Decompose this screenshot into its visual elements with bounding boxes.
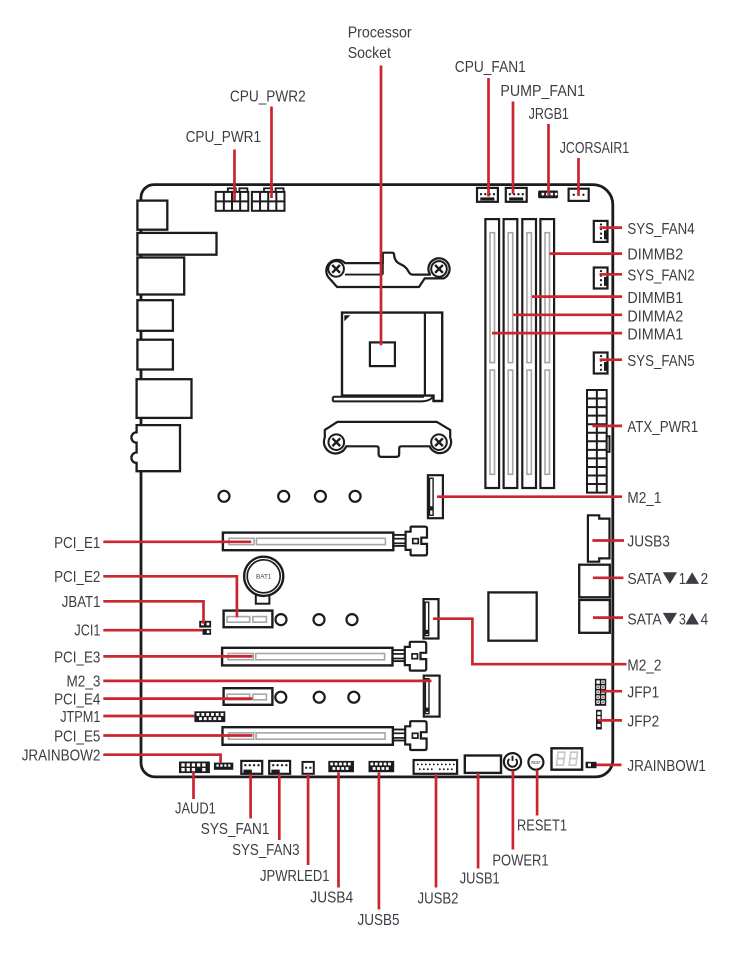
wire DIMMA1 leader: [492, 332, 622, 335]
label PUMP_FAN1: [500, 83, 585, 100]
svg-text:SYS_FAN1: SYS_FAN1: [201, 821, 270, 838]
svg-text:JUSB1: JUSB1: [460, 871, 500, 888]
wire DIMMB2 leader: [550, 252, 623, 255]
wire JRGB1 leader: [547, 124, 550, 195]
svg-text:JTPM1: JTPM1: [60, 709, 100, 726]
connector M2_1: [428, 475, 443, 518]
socket center square: [370, 342, 395, 366]
wire JFP1 leader: [601, 690, 622, 693]
button RESET1: [528, 755, 543, 770]
label JAUD1: [175, 800, 216, 817]
svg-text:BAT1: BAT1: [256, 574, 272, 581]
label JUSB2: [418, 890, 459, 907]
DIMMA2 slot: [504, 219, 518, 488]
header JFP1: [595, 679, 606, 706]
io port 6: [137, 379, 192, 418]
svg-text:ATX_PWR1: ATX_PWR1: [627, 419, 698, 436]
connector SYS_FAN2: [594, 268, 608, 289]
cpu top retention bracket: [326, 253, 449, 287]
svg-text:PCI_E5: PCI_E5: [54, 728, 100, 745]
connector SYS_FAN5: [594, 353, 608, 374]
wire CPU_PWR1 leader: [233, 150, 236, 201]
header JAUD1: [179, 762, 210, 774]
wire SATA12 leader: [593, 576, 624, 579]
io port 3: [137, 258, 184, 295]
svg-text:SYS_FAN4: SYS_FAN4: [627, 221, 694, 238]
svg-text:JRAINBOW2: JRAINBOW2: [22, 748, 101, 765]
svg-text:JCORSAIR1: JCORSAIR1: [560, 140, 630, 157]
header JPWRLED1: [303, 762, 314, 774]
svg-text:RESET1: RESET1: [517, 817, 567, 834]
svg-text:JPWRLED1: JPWRLED1: [260, 868, 330, 885]
svg-text:PCI_E3: PCI_E3: [54, 649, 100, 666]
connector M2_3: [424, 676, 440, 717]
wire M2_2 leader: [433, 619, 627, 665]
wire SYS_FAN5 leader: [600, 358, 622, 361]
label JUSB5: [358, 912, 400, 929]
wire SYS_FAN4 leader: [600, 226, 622, 229]
svg-text:CPU_PWR2: CPU_PWR2: [230, 88, 306, 105]
DIMMB1 slot: [522, 219, 536, 488]
connector JCORSAIR1: [569, 189, 589, 201]
label JRAINBOW1: [627, 758, 706, 775]
wire PCI_E4 leader: [103, 697, 252, 700]
debug LED: [552, 748, 583, 769]
label SYS_FAN1: [201, 821, 270, 838]
wire PCI_E2 leader: [103, 576, 237, 617]
label JCI1: [74, 623, 100, 640]
wire M2_1 leader: [437, 495, 622, 498]
svg-text:Socket: Socket: [348, 45, 392, 62]
io audio port: [131, 425, 180, 471]
mounting holes: [219, 491, 361, 703]
wire JFP2 leader: [598, 719, 622, 722]
label JFP1: [627, 684, 659, 701]
svg-text:SATA: SATA: [627, 612, 662, 629]
header JUSB2: [414, 760, 458, 774]
wire POWER1 leader: [512, 771, 515, 850]
label PCI_E2: [54, 569, 100, 586]
header JUSB5: [369, 761, 395, 772]
header JFP2: [596, 710, 602, 730]
label DIMMA1: [627, 326, 683, 343]
wire JUSB2 leader: [435, 774, 438, 888]
svg-text:M2_1: M2_1: [627, 490, 661, 507]
slot PCI_E2: [224, 611, 273, 628]
header JRAINBOW2: [214, 763, 233, 770]
chipset: [488, 592, 536, 640]
wire PUMP_FAN1 leader: [512, 102, 515, 195]
wire M2_3 leader: [103, 680, 431, 683]
svg-text:SYS_FAN2: SYS_FAN2: [627, 268, 694, 285]
label PCI_E4: [54, 691, 100, 708]
wire ATX_PWR1 leader: [592, 425, 622, 428]
wire SYS_FAN2 leader: [600, 273, 622, 276]
svg-text:JRAINBOW1: JRAINBOW1: [627, 758, 706, 775]
label SYS_FAN5: [627, 353, 694, 370]
connector CPU_PWR2: [252, 188, 285, 211]
wire JUSB3 leader: [592, 539, 624, 542]
button POWER1: [504, 753, 521, 770]
wire JUSB4 leader: [337, 773, 340, 888]
label M2_3: [67, 673, 101, 690]
wire JRAINBOW2 leader: [103, 755, 220, 763]
label JBAT1: [62, 594, 101, 611]
battery BAT1: [244, 557, 283, 604]
svg-text:DIMMB1: DIMMB1: [627, 290, 683, 307]
header JTPM1: [194, 711, 225, 722]
DIMMA1 slot: [485, 219, 499, 488]
svg-text:JUSB3: JUSB3: [627, 534, 669, 551]
label CPU_FAN1: [455, 59, 526, 76]
wire DIMMA2 leader: [513, 313, 622, 316]
io port 4: [137, 300, 173, 331]
wire PCI_E5 leader: [103, 734, 252, 737]
label DIMMB1: [627, 290, 683, 307]
label M2_2: [627, 657, 661, 674]
label RESET1: [517, 817, 567, 834]
svg-text:1: 1: [679, 571, 686, 588]
label JCORSAIR1: [560, 140, 630, 157]
svg-text:M2_2: M2_2: [627, 657, 661, 674]
wire JBAT1 leader: [103, 601, 203, 624]
connector SATA34: [579, 600, 610, 633]
svg-text:CPU_PWR1: CPU_PWR1: [186, 129, 261, 146]
label DIMMB2: [627, 247, 683, 264]
wire CPU_PWR2 leader: [270, 107, 273, 199]
wire Processor Socket leader: [380, 66, 383, 346]
connector JUSB1: [465, 756, 501, 773]
label SATA34: [627, 612, 708, 629]
label SYS_FAN4: [627, 221, 694, 238]
screw top-left: [328, 261, 344, 277]
label JUSB1: [460, 871, 500, 888]
svg-text:CPU_FAN1: CPU_FAN1: [455, 59, 526, 76]
label SYS_FAN3: [232, 842, 299, 859]
svg-text:RESET: RESET: [531, 760, 540, 765]
label SATA12: [627, 571, 708, 588]
jumper JBAT1: [199, 621, 211, 628]
screw top-right: [431, 261, 447, 277]
connector ATX_PWR1: [587, 390, 610, 493]
svg-text:JRGB1: JRGB1: [529, 106, 569, 123]
slot PCI_E1: [223, 527, 427, 556]
label CPU_PWR1: [186, 129, 261, 146]
svg-text:DIMMA1: DIMMA1: [627, 326, 683, 343]
svg-text:PCI_E2: PCI_E2: [54, 569, 100, 586]
socket lever: [333, 396, 433, 402]
svg-text:DIMMA2: DIMMA2: [627, 308, 683, 325]
connector SYS_FAN3: [269, 761, 290, 774]
connector M2_2: [424, 599, 439, 638]
header JUSB4: [328, 761, 354, 772]
label Socket: [348, 45, 392, 62]
connector PUMP_FAN1: [506, 188, 527, 202]
wire SYS_FAN1 leader: [249, 774, 252, 819]
label DIMMA2: [627, 308, 683, 325]
wire SATA34 leader: [593, 616, 623, 619]
svg-text:DIMMB2: DIMMB2: [627, 247, 683, 264]
wire PCI_E3 leader: [103, 655, 252, 658]
wire JRAINBOW1 leader: [596, 764, 621, 767]
svg-text:JAUD1: JAUD1: [175, 800, 216, 817]
wire JUSB5 leader: [378, 773, 381, 910]
label JUSB4: [310, 889, 353, 906]
label JUSB3: [627, 534, 669, 551]
svg-text:4: 4: [701, 612, 709, 629]
svg-text:JCI1: JCI1: [74, 623, 100, 640]
svg-text:SATA: SATA: [627, 571, 662, 588]
connector CPU_PWR1: [216, 188, 249, 211]
connector SATA12: [579, 565, 610, 598]
label M2_1: [627, 490, 661, 507]
screw bottom-left: [329, 434, 345, 450]
motherboard outline: [141, 185, 613, 777]
label Processor: [348, 24, 412, 41]
svg-text:JFP2: JFP2: [627, 713, 659, 730]
svg-text:2: 2: [701, 571, 709, 588]
slot PCI_E4: [224, 688, 273, 705]
label POWER1: [492, 852, 548, 869]
io port 5: [137, 340, 173, 370]
svg-text:3: 3: [679, 612, 686, 629]
label ATX_PWR1: [627, 419, 698, 436]
label PCI_E5: [54, 728, 100, 745]
label JRAINBOW2: [22, 748, 101, 765]
wire JAUD1 leader: [192, 771, 195, 799]
svg-text:JBAT1: JBAT1: [62, 594, 101, 611]
processor socket: [342, 313, 442, 401]
connector JRGB1: [538, 191, 558, 199]
svg-text:PCI_E4: PCI_E4: [54, 691, 100, 708]
svg-text:M2_3: M2_3: [67, 673, 101, 690]
slot PCI_E5: [223, 721, 427, 750]
svg-text:JUSB2: JUSB2: [418, 890, 459, 907]
wire DIMMB1 leader: [532, 295, 622, 298]
wire CPU_FAN1 leader: [487, 78, 490, 197]
label SYS_FAN2: [627, 268, 694, 285]
wire SYS_FAN3 leader: [278, 774, 281, 840]
cpu bottom retention bracket: [324, 422, 451, 457]
svg-text:JUSB5: JUSB5: [358, 912, 400, 929]
svg-text:JFP1: JFP1: [627, 684, 659, 701]
wire JCI1 leader: [103, 629, 203, 632]
io port 1: [137, 201, 167, 230]
connector SYS_FAN4: [594, 221, 608, 242]
header JRAINBOW1: [586, 762, 597, 768]
label JRGB1: [529, 106, 569, 123]
label PCI_E3: [54, 649, 100, 666]
label CPU_PWR2: [230, 88, 306, 105]
screw bottom-right: [431, 434, 447, 450]
wire JTPM1 leader: [103, 715, 194, 718]
svg-text:SYS_FAN5: SYS_FAN5: [627, 353, 694, 370]
slot PCI_E3: [222, 642, 426, 671]
DIMMB2 slot: [540, 219, 554, 488]
label JPWRLED1: [260, 868, 330, 885]
wire JUSB1 leader: [477, 773, 480, 869]
wire JPWRLED1 leader: [307, 774, 310, 865]
wire PCI_E1 leader: [103, 540, 251, 543]
connector SYS_FAN1: [241, 761, 262, 774]
svg-text:PUMP_FAN1: PUMP_FAN1: [500, 83, 585, 100]
svg-text:JUSB4: JUSB4: [310, 889, 353, 906]
label JTPM1: [60, 709, 100, 726]
label JFP2: [627, 713, 659, 730]
svg-text:PCI_E1: PCI_E1: [54, 535, 100, 552]
wire RESET1 leader: [536, 770, 539, 816]
label PCI_E1: [54, 535, 100, 552]
svg-text:SYS_FAN3: SYS_FAN3: [232, 842, 299, 859]
svg-text:Processor: Processor: [348, 24, 412, 41]
jumper JCI1: [203, 629, 212, 635]
connector CPU_FAN1: [477, 188, 498, 202]
svg-text:POWER1: POWER1: [492, 852, 548, 869]
connector JUSB3: [588, 515, 610, 561]
wire JCORSAIR1 leader: [577, 158, 580, 196]
io port 2: [137, 233, 216, 255]
